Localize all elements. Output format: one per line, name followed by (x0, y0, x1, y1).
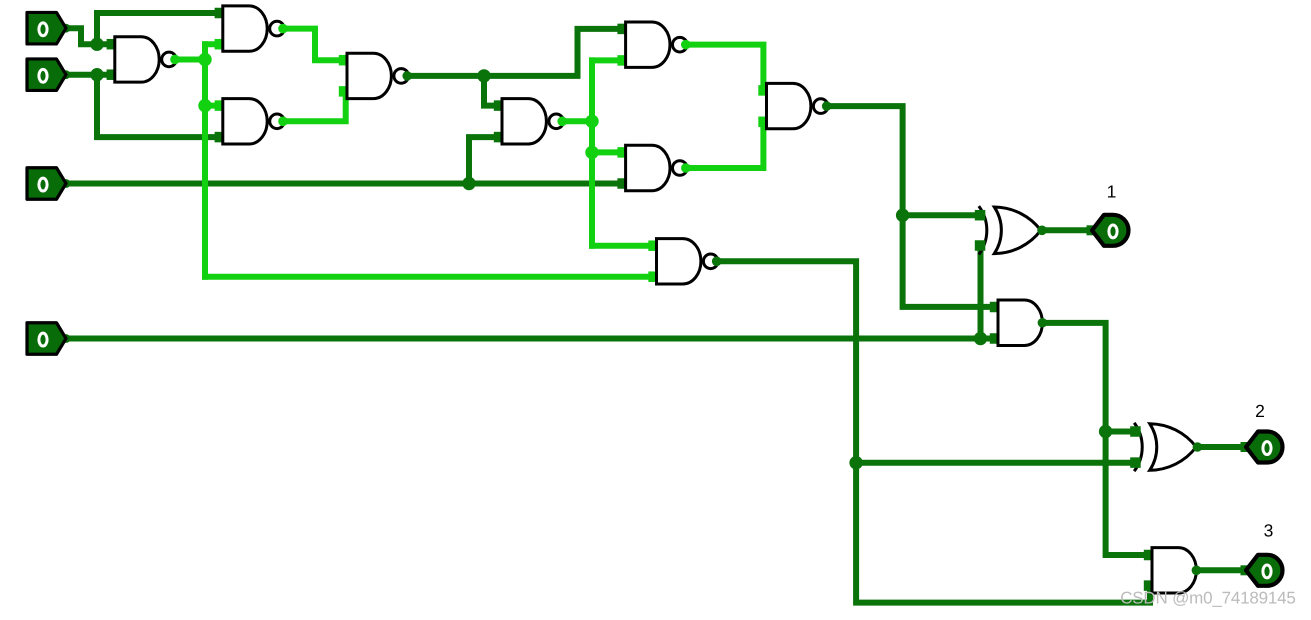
input pin 4 (D) value 0 (27, 323, 70, 355)
wire G8 output branch to XOR2 input 2 (856, 460, 1131, 466)
node C junction (462, 177, 475, 190)
wire net-C pin3 to G6 input 2 (66, 181, 620, 187)
wire G3 output branch to G4 input 1 (484, 76, 496, 106)
output pin 3 value 0 (1241, 555, 1283, 586)
input pin 2 (B) value 0 (27, 59, 70, 90)
wire to G2b input 1 (205, 103, 217, 109)
NAND gate U5 (494, 99, 567, 144)
wire G2b output to G3 input 2 (284, 91, 346, 121)
XOR gate U12 (1130, 423, 1202, 471)
svg-text:CSDN @m0_74189145: CSDN @m0_74189145 (1120, 588, 1295, 607)
wire to G6 input 1 (592, 149, 620, 155)
NAND gate U8 (758, 83, 831, 128)
node G1out junction (198, 53, 211, 66)
NAND gate U3 (215, 99, 288, 144)
wire G4 output (564, 118, 592, 124)
wire G1 output vertical trunk (202, 44, 208, 277)
node G7out junction (896, 209, 909, 222)
wire G4 output vertical trunk (589, 60, 595, 245)
XOR gate U11 (975, 206, 1047, 254)
NAND gate U9 (648, 239, 721, 284)
node G4out junction 2 (585, 146, 598, 159)
wire XOR2 output to output pin 2 (1195, 444, 1243, 450)
wire G8 output to AND3 input 2 (718, 261, 1150, 602)
wire net-A pin1 to G1 input 1 (66, 28, 111, 44)
node G3out junction (477, 69, 490, 82)
wire G2a output to G3 input 1 (284, 29, 342, 61)
node G8out junction (849, 456, 862, 469)
wire net-B branch to G2b input 2 (97, 75, 217, 137)
wire net-A branch to G2a input 1 (97, 13, 217, 44)
wire net-B pin2 to G1 input 2 (66, 72, 111, 78)
wire net-C branch to G4 input 2 (469, 137, 496, 183)
wire G1 output (175, 56, 205, 62)
wire XOR1 output to output pin 1 (1040, 227, 1089, 233)
output pin 1 value 0 (1087, 215, 1129, 246)
AND gate U13 (1144, 548, 1201, 593)
NAND gate U1 (107, 37, 180, 82)
wire G7 output branch to XOR1 input 1 (903, 212, 977, 218)
input pin 3 (C) value 0 (27, 168, 70, 200)
NAND gate U4 (339, 53, 412, 98)
NAND gate U2 (215, 6, 288, 51)
node A junction (90, 38, 103, 51)
node G1out junction 2 (198, 99, 211, 112)
svg-text:3: 3 (1264, 521, 1274, 541)
wire AND1 output branch to XOR2 input 1 (1106, 429, 1131, 435)
node B junction (90, 68, 103, 81)
wire to G2a input 2 (205, 41, 217, 47)
wire net-D pin4 to AND1 input 2 (66, 336, 993, 342)
wire G6 output to G7 input 2 (687, 122, 763, 168)
node D junction (974, 332, 987, 345)
wire G7 output to AND1 input 1 (827, 106, 993, 307)
wire to G5 input 2 (592, 57, 620, 63)
wire to G8 input 1 (592, 243, 651, 249)
wire G5 output to G7 input 1 (687, 45, 763, 91)
input pin 1 (A) value 0 (27, 12, 70, 44)
wire AND3 output to output pin 3 (1196, 567, 1243, 573)
NAND gate U7 (617, 145, 690, 190)
wire to G8 input 2 (205, 274, 651, 280)
output pin 2 value 0 (1241, 432, 1283, 463)
AND gate U10 (990, 300, 1047, 345)
node G4out junction (585, 115, 598, 128)
node AND1out junction (1099, 425, 1112, 438)
wire G3 output to G5 input 1 (407, 29, 620, 76)
wire net-D branch to XOR1 input 2 (978, 246, 984, 339)
wire AND1 output to AND3 input 1 (1044, 323, 1146, 555)
svg-text:2: 2 (1255, 401, 1265, 421)
NAND gate U6 (617, 22, 690, 67)
svg-text:1: 1 (1107, 182, 1117, 202)
